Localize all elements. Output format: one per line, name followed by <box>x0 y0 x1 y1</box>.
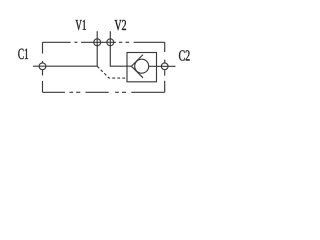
label V1 <box>76 20 86 30</box>
wire: pilot dashed line from junction to valve box <box>97 66 127 78</box>
enclosure right edge (dash-dot) <box>164 42 166 92</box>
wire: main line from C1 to V1 junction <box>33 65 97 67</box>
enclosure bottom edge (dash-dot) <box>43 91 165 93</box>
port V1 <box>94 39 101 46</box>
valve body box <box>127 53 157 82</box>
label C1 <box>18 49 28 60</box>
label V2 <box>115 20 126 30</box>
wire: V2 service vertical + run to valve seat <box>110 31 131 66</box>
wire: V1 service vertical <box>96 31 98 66</box>
port V2 <box>107 39 114 46</box>
port C1 <box>39 63 46 70</box>
check valve ball <box>135 59 149 73</box>
wire: valve outlet to C2 <box>149 65 176 67</box>
check valve seat <box>131 55 143 78</box>
enclosure top edge (dash-dot) <box>43 41 165 43</box>
port C2 <box>161 63 168 70</box>
enclosure left edge (dash-dot) <box>42 42 44 92</box>
label C2 <box>179 50 190 60</box>
